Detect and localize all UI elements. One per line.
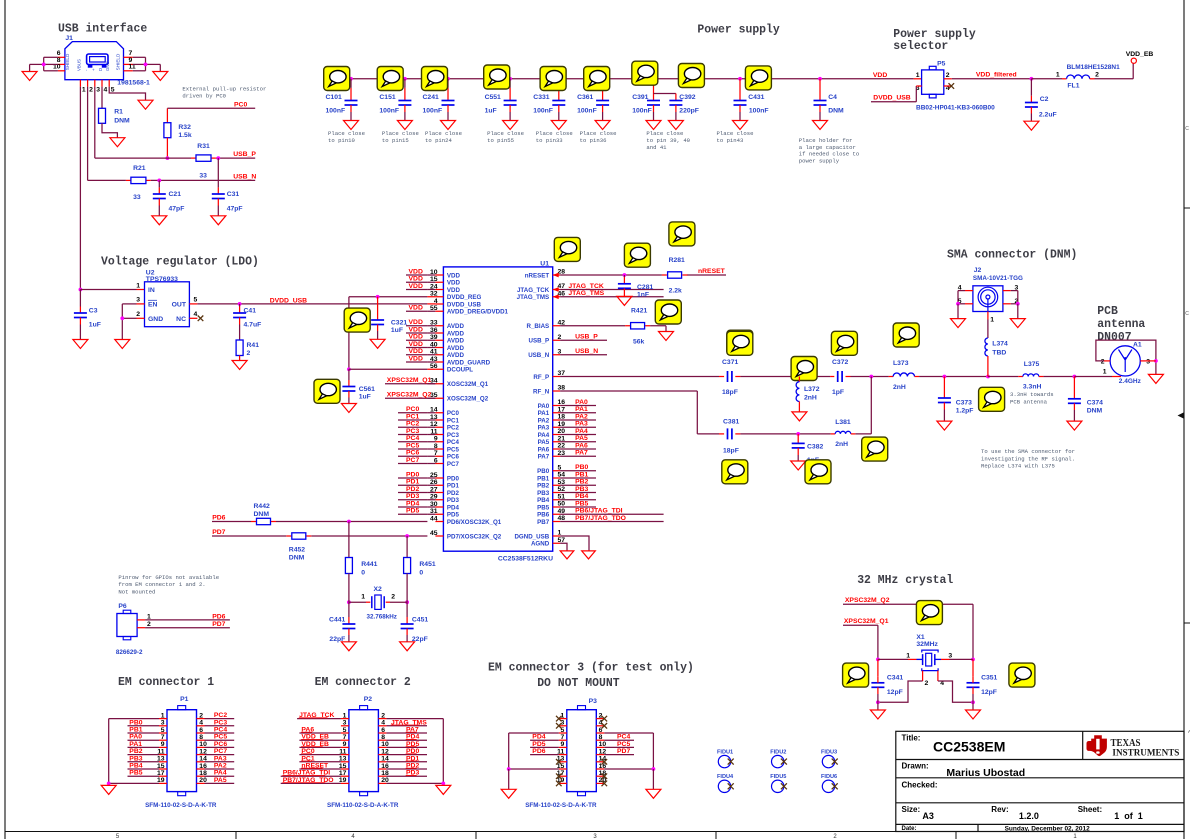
svg-text:2nH: 2nH (893, 384, 906, 391)
wire C381 to L381 (740, 432, 835, 436)
svg-text:VDD: VDD (873, 72, 887, 79)
svg-text:and 41: and 41 (646, 144, 667, 151)
svg-text:C431: C431 (748, 94, 764, 101)
wire net R_BIAS (560, 326, 666, 332)
svg-text:8: 8 (599, 734, 603, 741)
svg-text:56: 56 (430, 363, 438, 370)
wire J2 pin4 pin5 to ground left (956, 291, 973, 319)
svg-text:PD2: PD2 (447, 490, 460, 497)
svg-text:Not mounted: Not mounted (118, 588, 155, 595)
svg-text:18pF: 18pF (722, 389, 738, 396)
capacitor C351 12pF (967, 659, 998, 710)
wire net USB_N (88, 87, 256, 183)
resistor R31 33 (191, 143, 216, 179)
svg-text:27: 27 (430, 486, 438, 493)
svg-text:XPSC32M_Q2: XPSC32M_Q2 (845, 597, 890, 604)
svg-text:VBUS: VBUS (76, 59, 81, 71)
svg-text:VDD_EB: VDD_EB (1126, 51, 1154, 58)
wire nets PA0-PA7 (560, 399, 596, 457)
svg-text:SMA-10V21-TGG: SMA-10V21-TGG (973, 275, 1023, 282)
svg-text:100nF: 100nF (423, 107, 443, 114)
svg-text:2nH: 2nH (835, 441, 848, 448)
ground at C101 (344, 121, 359, 130)
capacitor C31 47pF (212, 158, 243, 216)
svg-text:VDD: VDD (409, 283, 423, 290)
balloon callout C281 (624, 243, 650, 267)
svg-text:AVDD_DREG/DVDD1: AVDD_DREG/DVDD1 (447, 309, 509, 316)
svg-text:1.2pF: 1.2pF (956, 408, 974, 415)
svg-text:PB1: PB1 (575, 471, 588, 478)
svg-text:DNM: DNM (1087, 408, 1103, 415)
capacitor C391 100nF (632, 77, 660, 121)
svg-text:USB interface: USB interface (58, 22, 147, 36)
svg-text:1: 1 (361, 594, 365, 601)
svg-text:PB5: PB5 (129, 770, 142, 777)
svg-text:PA1: PA1 (575, 406, 588, 413)
ground at C561 (341, 404, 356, 413)
svg-text:1: 1 (82, 87, 86, 94)
balloon callout C331 (540, 67, 566, 91)
svg-text:VDD: VDD (447, 272, 461, 279)
svg-text:2: 2 (199, 712, 203, 719)
ground at AGND (560, 551, 574, 559)
svg-text:9: 9 (161, 741, 165, 748)
svg-text:33: 33 (430, 320, 438, 327)
wire nets PD0-PD5 on U1 left (398, 471, 427, 514)
svg-text:to pin24: to pin24 (425, 137, 452, 144)
wire J1 pin4 to R1 (101, 87, 103, 109)
svg-text:8: 8 (199, 734, 203, 741)
svg-text:selector: selector (893, 39, 948, 53)
svg-text:2.4GHz: 2.4GHz (1119, 378, 1142, 385)
svg-text:C351: C351 (981, 675, 997, 682)
svg-text:DCOUPL: DCOUPL (447, 367, 473, 374)
ground at C241 (441, 121, 456, 130)
svg-text:1.5k: 1.5k (178, 132, 191, 139)
svg-text:4: 4 (194, 311, 198, 318)
ground at P3 left (501, 789, 516, 798)
svg-text:C21: C21 (169, 191, 182, 198)
svg-text:TEXAS: TEXAS (1111, 738, 1141, 749)
ground at L372 (792, 412, 807, 421)
inductor L372 2nH (796, 377, 820, 412)
svg-text:L373: L373 (893, 360, 909, 367)
svg-text:FIDU2: FIDU2 (770, 749, 786, 755)
svg-text:PD6: PD6 (212, 613, 225, 620)
svg-text:RF_P: RF_P (533, 374, 549, 381)
svg-text:IN: IN (148, 287, 155, 294)
svg-text:nRESET: nRESET (698, 268, 726, 275)
capacitor C3 1uF (74, 290, 101, 340)
svg-text:C101: C101 (326, 94, 342, 101)
svg-text:PA2: PA2 (575, 413, 588, 420)
capacitor C561 1uF (342, 369, 375, 403)
svg-text:from EM connector 1 and 2.: from EM connector 1 and 2. (118, 581, 205, 588)
wire net DVDD_REG with C321 (347, 295, 435, 371)
svg-text:32.768kHz: 32.768kHz (367, 613, 397, 620)
svg-text:BB02-HP041-KB3-060B00: BB02-HP041-KB3-060B00 (916, 105, 995, 112)
svg-text:DVDD_USB: DVDD_USB (447, 301, 482, 308)
svg-text:2: 2 (946, 72, 950, 79)
svg-text:AGND: AGND (531, 541, 550, 548)
svg-text:R281: R281 (669, 257, 685, 264)
balloon callout C371 (727, 331, 753, 355)
svg-text:6: 6 (434, 457, 438, 464)
svg-text:PC7: PC7 (214, 748, 227, 755)
svg-text:0: 0 (419, 569, 423, 576)
svg-text:DGND_USB: DGND_USB (514, 533, 549, 540)
svg-text:1: 1 (906, 652, 910, 659)
ground at P1 (101, 785, 116, 794)
wire nets P1 left PB0-PB5 PA0 PA1 (128, 719, 160, 726)
svg-text:FL1: FL1 (1067, 82, 1079, 89)
fiducial FIDU3 (821, 749, 838, 768)
svg-text:C381: C381 (723, 418, 739, 425)
capacitor C281 1nF (618, 275, 654, 299)
svg-text:C391: C391 (632, 94, 648, 101)
crystal X1 32MHz (876, 634, 975, 687)
ground at C431 (733, 121, 748, 130)
svg-text:USB_N: USB_N (233, 173, 256, 180)
svg-text:GND: GND (148, 316, 163, 323)
balloon callout C151 (377, 67, 403, 91)
svg-text:PB1: PB1 (537, 475, 550, 482)
resistor R21 33 (126, 165, 151, 201)
svg-text:C331: C331 (533, 94, 549, 101)
svg-text:3: 3 (343, 720, 347, 727)
balloon callout below C381 (722, 460, 748, 484)
svg-text:DNM: DNM (828, 107, 844, 114)
svg-text:47pF: 47pF (227, 205, 243, 212)
ground at C151 (397, 121, 412, 130)
svg-text:Power supply: Power supply (697, 23, 779, 37)
svg-text:2: 2 (147, 621, 151, 628)
svg-text:RF_N: RF_N (533, 388, 550, 395)
wire net USB_P (95, 87, 255, 160)
svg-text:33: 33 (199, 173, 207, 180)
svg-text:PB4: PB4 (537, 497, 550, 504)
svg-text:45: 45 (430, 530, 438, 537)
wire net USB_N right (560, 348, 607, 355)
svg-text:L375: L375 (1024, 361, 1040, 368)
wire net PD7 (212, 534, 427, 538)
balloon callout C241 (422, 67, 448, 91)
ground at C441 (341, 642, 356, 651)
svg-text:PB2: PB2 (537, 483, 550, 490)
svg-text:2: 2 (247, 350, 251, 357)
ground at DGND_USB (582, 551, 596, 559)
svg-text:3: 3 (948, 652, 952, 659)
U1 right pin numbers and stubs (553, 269, 566, 544)
svg-text:Pinrow for GPIOs not available: Pinrow for GPIOs not available (118, 574, 219, 581)
svg-text:47pF: 47pF (169, 205, 185, 212)
svg-text:PC6: PC6 (447, 454, 460, 461)
wire DGND_USB to ground (560, 536, 589, 551)
svg-text:6: 6 (381, 727, 385, 734)
svg-text:C2: C2 (1040, 96, 1049, 103)
svg-text:investigating the RF signal.: investigating the RF signal. (981, 455, 1075, 462)
capacitor C151 100nF (379, 77, 411, 121)
svg-text:1uF: 1uF (359, 393, 371, 400)
svg-text:J2: J2 (974, 267, 982, 274)
fiducial FIDU6 (821, 774, 838, 793)
balloon callout on RF_P line (791, 357, 817, 381)
resistor R1 DNM (99, 108, 131, 124)
svg-text:1: 1 (147, 613, 151, 620)
svg-text:PD7: PD7 (212, 529, 225, 536)
svg-text:Title:: Title: (902, 734, 921, 743)
svg-text:9: 9 (561, 741, 565, 748)
wire L375 to antenna (1043, 375, 1121, 379)
ground at R1 (110, 138, 125, 147)
svg-text:DVDD_USB: DVDD_USB (270, 297, 307, 304)
svg-text:PD3: PD3 (406, 493, 419, 500)
svg-text:USB_N: USB_N (575, 348, 598, 355)
wire net PD6 (212, 520, 427, 524)
svg-text:PB4: PB4 (575, 493, 588, 500)
ground at J1 pin5 (138, 100, 153, 109)
svg-text:C151: C151 (379, 94, 395, 101)
svg-text:PB5: PB5 (575, 500, 588, 507)
svg-text:SHIELD: SHIELD (65, 53, 70, 70)
svg-text:C561: C561 (359, 386, 375, 393)
wire net DCOUPL (349, 368, 436, 370)
svg-text:826629-2: 826629-2 (116, 649, 143, 656)
ground at C391 (646, 121, 661, 130)
svg-text:PC2: PC2 (214, 712, 227, 719)
svg-text:1: 1 (343, 712, 347, 719)
svg-text:VDD: VDD (447, 280, 461, 287)
svg-text:R421: R421 (631, 308, 647, 315)
wire nets P2 right (386, 719, 427, 776)
ground at C331 (551, 121, 566, 130)
balloon callout C341 (843, 663, 869, 687)
wire J1 shield pins 7 9 11 to ground (133, 57, 161, 71)
svg-text:3.3nH towards: 3.3nH towards (1010, 391, 1054, 398)
no-connect X on U2 NC (189, 316, 203, 322)
svg-text:PC4: PC4 (214, 727, 227, 734)
svg-text:PD4: PD4 (447, 504, 460, 511)
svg-text:L372: L372 (804, 386, 820, 393)
svg-text:to pin33: to pin33 (536, 137, 563, 144)
capacitor C431 100nF (734, 77, 769, 121)
svg-text:7: 7 (161, 734, 165, 741)
svg-text:X1: X1 (916, 634, 925, 641)
svg-text:C241: C241 (423, 94, 439, 101)
svg-text:R41: R41 (247, 342, 260, 349)
capacitor C371 18pF (722, 359, 740, 396)
ground at C351 (966, 710, 981, 719)
svg-text:VDD: VDD (409, 268, 423, 275)
svg-text:FIDU6: FIDU6 (821, 774, 837, 780)
wire net XOSC32M_Q1 (385, 377, 435, 384)
svg-text:VDD: VDD (409, 341, 423, 348)
inductor L375 3.3nH (1023, 361, 1044, 391)
svg-text:Marius Ubostad: Marius Ubostad (946, 767, 1025, 779)
svg-text:TBD: TBD (992, 349, 1006, 356)
wire J2 pin1 to L374 (987, 312, 989, 339)
svg-text:JTAG_TMS: JTAG_TMS (568, 290, 604, 297)
svg-text:PC5: PC5 (617, 741, 630, 748)
svg-text:Sheet:: Sheet: (1078, 805, 1102, 814)
capacitor C372 1pF (830, 359, 850, 396)
svg-text:PA6: PA6 (538, 446, 550, 453)
connector J1 USB receptacle 1981568-1 (53, 35, 150, 94)
ground at C551 (503, 121, 518, 130)
wire J1 pin5 GND to ground (109, 87, 145, 101)
ground at P2 (436, 785, 451, 794)
svg-text:VDD_filtered: VDD_filtered (976, 72, 1017, 79)
svg-text:AVDD: AVDD (447, 345, 465, 352)
wire net RF_P to C371 (560, 376, 724, 378)
svg-text:PB0: PB0 (575, 464, 588, 471)
svg-text:PD6/XOSC32K_Q1: PD6/XOSC32K_Q1 (447, 519, 502, 526)
svg-text:100nF: 100nF (749, 107, 769, 114)
balloon callout above X1 (916, 601, 942, 625)
wire net nRESET (560, 273, 726, 277)
svg-text:JTAG_TCK: JTAG_TCK (568, 283, 603, 290)
svg-text:9: 9 (434, 436, 438, 443)
svg-text:C382: C382 (807, 444, 823, 451)
svg-text:PC4: PC4 (406, 435, 419, 442)
svg-text:PD4: PD4 (406, 500, 419, 507)
ground at R41 (232, 361, 247, 370)
svg-text:R452: R452 (289, 546, 305, 553)
svg-text:3: 3 (1146, 359, 1150, 366)
svg-text:C281: C281 (637, 284, 653, 291)
svg-text:24: 24 (430, 283, 438, 290)
svg-text:USB_P: USB_P (529, 338, 550, 345)
svg-text:0: 0 (361, 569, 365, 576)
svg-text:C31: C31 (227, 191, 240, 198)
svg-text:PC5: PC5 (406, 442, 419, 449)
svg-text:FIDU1: FIDU1 (717, 749, 733, 755)
power terminal VDD_EB (1126, 51, 1154, 63)
capacitor C382 1pF (792, 434, 824, 464)
svg-text:to pin55: to pin55 (487, 137, 514, 144)
svg-text:C372: C372 (832, 359, 848, 366)
svg-text:nRESET: nRESET (525, 272, 550, 279)
wire nets P1 right PC2-PC7 PA2-PA5 (205, 712, 235, 719)
svg-text:8: 8 (434, 443, 438, 450)
svg-text:1: 1 (161, 712, 165, 719)
svg-text:L381: L381 (835, 419, 851, 426)
connector P5 BB02-HP041-KB3-060B00 (916, 60, 995, 111)
fiducial FIDU2 (770, 749, 787, 768)
svg-text:L374: L374 (992, 340, 1008, 347)
svg-text:SFM-110-02-S-D-A-K-TR: SFM-110-02-S-D-A-K-TR (327, 802, 399, 809)
ground at C4 (813, 121, 828, 130)
svg-text:1uF: 1uF (89, 322, 101, 329)
ground at C2 (1024, 121, 1039, 130)
svg-text:DNM: DNM (289, 555, 305, 562)
svg-text:INSTRUMENTS: INSTRUMENTS (1112, 748, 1179, 758)
svg-text:PC0: PC0 (234, 101, 247, 108)
svg-text:EM connector 1: EM connector 1 (118, 675, 214, 689)
svg-text:12pF: 12pF (887, 689, 903, 696)
capacitor C241 100nF (423, 77, 455, 121)
svg-text:PD5: PD5 (406, 508, 419, 515)
wire J1 shield pins 6 8 10 to ground (30, 57, 58, 71)
svg-text:2: 2 (381, 712, 385, 719)
svg-text:R_BIAS: R_BIAS (526, 323, 549, 330)
svg-text:PB3: PB3 (575, 486, 588, 493)
svg-text:R21: R21 (133, 165, 146, 172)
svg-text:100nF: 100nF (577, 107, 597, 114)
ground at P3 right (646, 789, 661, 798)
svg-text:To use the SMA connector for: To use the SMA connector for (981, 448, 1075, 455)
capacitor C341 12pF (871, 659, 903, 710)
svg-text:PD6: PD6 (532, 748, 545, 755)
svg-text:5: 5 (194, 297, 198, 304)
svg-text:PB5: PB5 (537, 504, 550, 511)
svg-text:USB_P: USB_P (233, 151, 256, 158)
svg-text:Date:: Date: (902, 826, 917, 832)
svg-text:Voltage regulator (LDO): Voltage regulator (LDO) (101, 255, 259, 269)
svg-text:7: 7 (343, 734, 347, 741)
svg-text:JTAG_TMS: JTAG_TMS (517, 294, 550, 301)
svg-text:PC4: PC4 (617, 734, 630, 741)
balloon callout C551 (484, 65, 510, 89)
svg-text:AVDD: AVDD (447, 338, 465, 345)
svg-text:EN: EN (148, 302, 158, 309)
svg-text:PC3: PC3 (406, 428, 419, 435)
svg-text:100nF: 100nF (326, 107, 346, 114)
ground at C373 (937, 421, 952, 430)
svg-text:driven by PC0: driven by PC0 (182, 92, 226, 99)
svg-text:XPSC32M_Q1: XPSC32M_Q1 (844, 618, 889, 625)
wire P3 pins 6 16 to ground right (604, 733, 655, 789)
svg-text:XOSC32M_Q1: XOSC32M_Q1 (447, 381, 489, 388)
svg-text:PD3: PD3 (447, 497, 460, 504)
U1 left pin numbers and stubs (427, 269, 443, 537)
svg-text:30: 30 (430, 501, 438, 508)
svg-text:13: 13 (430, 414, 438, 421)
IC U1 CC2538F512RKU (443, 261, 553, 563)
svg-text:DVDD_REG: DVDD_REG (447, 294, 482, 301)
capacitor C361 100nF (577, 77, 609, 121)
svg-text:DNM: DNM (114, 118, 130, 125)
resistor R32 1.5k (164, 123, 192, 139)
ground at J2 right (1010, 319, 1025, 328)
svg-text:A3: A3 (922, 811, 934, 821)
svg-text:1: 1 (990, 317, 994, 324)
wire C371 to C372 with L372 tap (740, 375, 830, 379)
svg-text:7: 7 (129, 50, 133, 57)
wire C372 to L373 (851, 375, 894, 379)
svg-text:10: 10 (430, 269, 438, 276)
svg-text:CC2538F512RKU: CC2538F512RKU (498, 555, 553, 562)
svg-text:FIDU3: FIDU3 (821, 749, 837, 755)
svg-text:1pF: 1pF (832, 389, 844, 396)
svg-text:2: 2 (925, 680, 929, 687)
balloon callout C392 (678, 64, 704, 88)
svg-text:R31: R31 (197, 143, 210, 150)
svg-text:FIDU4: FIDU4 (717, 774, 734, 780)
inductor L381 2nH (835, 419, 855, 448)
svg-text:PC4: PC4 (447, 439, 460, 446)
svg-text:6: 6 (199, 727, 203, 734)
svg-text:EM connector 2: EM connector 2 (315, 675, 411, 689)
svg-text:OUT: OUT (172, 302, 187, 309)
svg-text:32 MHz crystal: 32 MHz crystal (857, 573, 953, 587)
ground at antenna (1148, 374, 1163, 383)
balloon callout right of R421 (727, 330, 753, 354)
svg-text:PB3: PB3 (537, 490, 550, 497)
svg-text:100nF: 100nF (379, 107, 399, 114)
svg-text:100nF: 100nF (533, 107, 553, 114)
svg-text:C: C (1185, 126, 1189, 132)
